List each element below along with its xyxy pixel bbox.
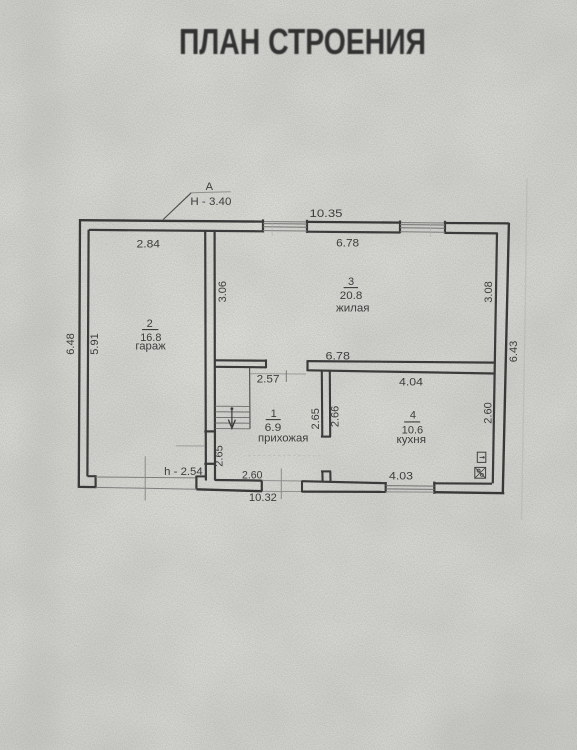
top wall outer line left segment (79, 220, 263, 221)
svg-text:3: 3 (348, 276, 354, 288)
kitchen window left cap (385, 482, 387, 493)
left wall bottom pier cap (94, 475, 96, 488)
svg-text:h - 2.54: h - 2.54 (164, 466, 203, 478)
window W1 right cap (306, 220, 308, 233)
kitchen appliance symbol 2 (475, 467, 486, 478)
bottom wall mid outer (302, 490, 386, 493)
bottom wall hall outer (196, 489, 262, 491)
top wall inner line mid (307, 231, 400, 234)
living-hall wall bottom line (215, 366, 266, 369)
hall-kitchen wall left line (321, 371, 324, 437)
window W2 glazing line 1 (400, 224, 445, 226)
svg-text:2.84: 2.84 (137, 239, 161, 251)
top wall outer line middle segment (307, 221, 400, 224)
svg-text:ПЛАН СТРОЕНИЯ: ПЛАН СТРОЕНИЯ (179, 21, 426, 62)
svg-text:10.35: 10.35 (310, 208, 343, 220)
svg-text:4: 4 (410, 409, 416, 421)
svg-text:прихожая: прихожая (258, 433, 308, 445)
right wall outer line (503, 223, 509, 494)
kitchen appliance symbol 1 (477, 452, 486, 462)
hall-kitchen door cap lower (321, 470, 331, 472)
svg-text:2.60: 2.60 (242, 470, 263, 482)
svg-text:5.91: 5.91 (89, 333, 101, 354)
entrance door opening inner thin line (262, 480, 302, 482)
svg-text:2: 2 (147, 318, 153, 330)
left wall inner line (87, 230, 88, 476)
svg-text:А: А (206, 181, 214, 193)
faint hall dashed line (248, 454, 322, 456)
svg-text:4.04: 4.04 (399, 376, 423, 388)
svg-text:6.48: 6.48 (65, 333, 77, 354)
section leader line (163, 193, 191, 220)
left wall outer line (79, 219, 80, 488)
window W1 outer sill line (263, 221, 307, 223)
left wall bottom pier outer (79, 486, 97, 489)
garage-hall wall right line (214, 231, 217, 481)
stairs descent arrow (231, 407, 234, 410)
window W1 glazing line 1 (263, 223, 307, 225)
svg-text:2.66: 2.66 (329, 406, 341, 427)
garage door right pier vertical (195, 476, 197, 489)
window W1 glazing line 2 (263, 226, 307, 228)
dim tick 2.57 (285, 370, 287, 382)
dim extension stub h254 (176, 445, 205, 447)
bottom wall right inner (434, 482, 492, 485)
hall-kitchen door cap upper (321, 436, 331, 438)
svg-text:2.65: 2.65 (310, 408, 322, 429)
left scanner shadow band (24, 0, 58, 750)
window W2 right cap (444, 221, 446, 234)
svg-text:20.8: 20.8 (340, 290, 363, 302)
left wall bottom pier step (87, 475, 95, 477)
living-hall wall top line left (215, 359, 266, 362)
svg-text:2.65: 2.65 (214, 445, 226, 466)
bottom wall right outer (434, 492, 504, 493)
svg-text:1: 1 (271, 408, 277, 420)
top wall inner line garage+living (89, 230, 263, 231)
entrance door opening outer thin line (262, 490, 302, 492)
faint tick top wall b (429, 221, 431, 237)
faint tick top wall a (271, 220, 273, 237)
window W2 outer sill line (400, 222, 445, 224)
svg-text:3.06: 3.06 (217, 281, 229, 302)
garage door opening outer thin line (96, 487, 197, 489)
garage-hall door cap upper (204, 430, 216, 432)
hall-kitchen wall right line (329, 371, 332, 437)
kitchen window outer sill line (386, 491, 435, 493)
svg-text:6.43: 6.43 (508, 341, 520, 362)
svg-text:жилая: жилая (336, 303, 370, 315)
garage door right pier step (196, 475, 206, 477)
top wall inner line right (445, 232, 497, 235)
entrance door right cap (301, 481, 303, 493)
top wall outer line right segment (445, 222, 509, 225)
paper fold line right (522, 178, 528, 520)
svg-text:6.78: 6.78 (326, 350, 351, 362)
svg-text:4.03: 4.03 (389, 470, 413, 482)
kitchen window glazing line 1 (386, 485, 435, 488)
svg-text:Н - 3.40: Н - 3.40 (190, 196, 231, 208)
svg-text:3.08: 3.08 (483, 281, 495, 302)
section label divider line (191, 192, 231, 193)
svg-text:2.60: 2.60 (482, 402, 494, 423)
window W2 glazing line 2 (400, 227, 445, 229)
bottom wall mid inner (302, 481, 386, 483)
svg-text:гараж: гараж (135, 341, 166, 353)
hall-kitchen wall lower stub left (321, 472, 323, 481)
svg-text:2.57: 2.57 (257, 373, 280, 385)
entrance door left cap (261, 480, 263, 492)
stairs right boundary (249, 368, 251, 429)
window W1 left cap (262, 219, 264, 232)
garage-hall door cap lower (204, 463, 216, 465)
garage-hall wall left line (204, 231, 207, 481)
svg-text:10.32: 10.32 (249, 492, 277, 504)
window W2 inner sill line (400, 231, 445, 233)
living-kitchen wall top line (308, 361, 495, 363)
kitchen window right cap (433, 482, 435, 494)
window W1 inner sill line (263, 230, 307, 232)
dim extension line entrance (280, 469, 282, 500)
svg-text:кухня: кухня (397, 434, 427, 446)
dim line 2.57 (250, 373, 306, 375)
bottom wall hall inner (215, 479, 262, 482)
garage door opening inner thin line (96, 476, 197, 479)
living-hall door right cap (306, 360, 308, 371)
living-kitchen wall bottom line (308, 370, 495, 373)
dim extension line garage door (144, 456, 146, 500)
living-hall door left cap (265, 359, 267, 368)
right wall inner line (493, 233, 497, 484)
hall-kitchen wall lower stub right (329, 472, 331, 482)
svg-text:6.78: 6.78 (336, 237, 359, 249)
stairs treads (215, 405, 250, 407)
window W2 left cap (399, 221, 401, 234)
kitchen window glazing line 2 (386, 488, 435, 491)
